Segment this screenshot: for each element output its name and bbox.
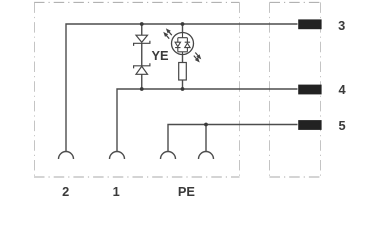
svg-text:2: 2: [62, 184, 69, 199]
svg-text:YE: YE: [151, 48, 169, 63]
svg-text:4: 4: [338, 82, 346, 97]
svg-text:PE: PE: [178, 184, 196, 199]
svg-text:3: 3: [338, 18, 345, 33]
svg-text:1: 1: [113, 184, 120, 199]
svg-text:5: 5: [338, 118, 345, 133]
